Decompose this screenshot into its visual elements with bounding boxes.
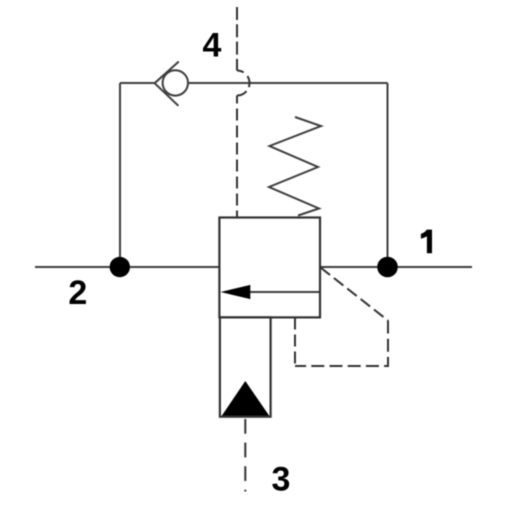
svg-text:2: 2 [68,274,87,312]
svg-text:4: 4 [202,27,221,65]
svg-text:3: 3 [272,460,291,498]
